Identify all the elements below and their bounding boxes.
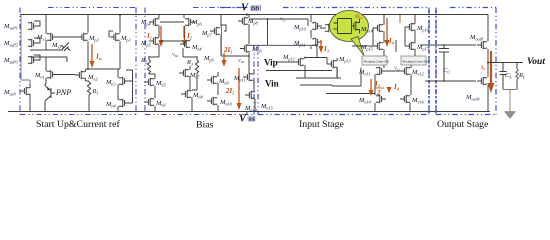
transistor Mn9 bbox=[207, 72, 230, 95]
transistor Mp2 bbox=[78, 15, 99, 69]
transistor Mn2 bbox=[75, 69, 98, 82]
transistor Mn11b bbox=[358, 67, 386, 95]
svg-text:Input Stage: Input Stage bbox=[299, 119, 345, 130]
junction dots bbox=[87, 14, 445, 82]
svg-text:PNP: PNP bbox=[55, 88, 71, 97]
output current arrow bbox=[480, 51, 495, 93]
current arrow I1 bbox=[146, 26, 164, 47]
current arrow I4 bbox=[387, 80, 399, 93]
gate tie wires bias bbox=[160, 22, 184, 41]
transistor Mp8 bbox=[238, 15, 259, 73]
transistor Mp3 bbox=[86, 15, 131, 69]
capacitor CC bbox=[439, 45, 450, 81]
transistor MsuN bbox=[3, 84, 30, 111]
transistor MsuP2 bbox=[3, 38, 40, 48]
ground arrow bbox=[503, 90, 517, 119]
svg-text:Bias: Bias bbox=[196, 120, 214, 131]
transistor Mn14 bbox=[358, 95, 386, 111]
resistor R1 bbox=[86, 81, 99, 112]
transistor Mp13 bbox=[327, 56, 351, 78]
wire Mp15 to classAB box bbox=[384, 49, 415, 68]
stage box Output Stage dashed border bbox=[436, 8, 496, 115]
floating class-AB box 1 bbox=[362, 56, 390, 65]
transistor Mn7 bbox=[179, 66, 201, 90]
transistor Mp14 bbox=[360, 15, 384, 46]
label VSS bbox=[239, 114, 256, 125]
capacitor CL bbox=[500, 63, 513, 90]
transistor Mn4b bbox=[180, 40, 202, 60]
transistor Mn8 bbox=[181, 76, 204, 111]
svg-text:DD: DD bbox=[250, 7, 260, 13]
junction dot Vout bbox=[487, 62, 489, 64]
transistor Mn11a bbox=[233, 69, 254, 90]
transistor MsuP1 bbox=[3, 21, 40, 31]
transistor MoutN bbox=[465, 64, 488, 111]
heavy dashed divider input/output bbox=[429, 10, 436, 113]
label VDD bbox=[241, 3, 261, 14]
svg-text:SS: SS bbox=[249, 118, 255, 124]
transistor Mn6 bbox=[144, 98, 167, 111]
green callout balloon bbox=[330, 11, 369, 56]
transistor Mp16 bbox=[405, 15, 430, 46]
svg-text:Floating Class-AB: Floating Class-AB bbox=[364, 60, 390, 64]
resistor R3 bbox=[186, 56, 199, 76]
current arrow I3 up bbox=[319, 40, 329, 54]
transistor Mn10 bbox=[207, 97, 233, 111]
wire between Mp15 and Mp16 columns bbox=[395, 40, 397, 52]
wire gate mirror top bbox=[249, 19, 326, 28]
transistor Mn13 bbox=[244, 91, 257, 113]
gate wire Mp3 diode loop bbox=[109, 31, 113, 37]
wire Vin bbox=[266, 70, 332, 72]
resistor RL bbox=[516, 63, 526, 90]
orange current path wire bbox=[221, 27, 223, 55]
transistor Mp7 bbox=[201, 15, 226, 56]
transistor Mp17 bbox=[405, 42, 430, 52]
gate wire Ms1 to Mp2 bbox=[57, 36, 78, 38]
svg-text:V: V bbox=[241, 3, 249, 14]
transistor Mn3 bbox=[105, 69, 129, 100]
transistor Mp4 bbox=[140, 15, 159, 60]
resistor R2 bbox=[140, 56, 151, 74]
transistor Mp9 under balloon bbox=[325, 24, 335, 33]
current arrow I2 bbox=[182, 26, 192, 47]
wire between Mn11 Mn12 bbox=[382, 70, 404, 72]
junction dot VDD bbox=[246, 13, 248, 15]
wire gate MoutP bbox=[420, 44, 476, 46]
BJT PNP bbox=[45, 84, 71, 112]
stage box Bias dashed border bbox=[145, 8, 254, 115]
transistor Mp11 bbox=[293, 38, 322, 49]
transistor Mn16 bbox=[400, 95, 425, 111]
transistor Mn12 bbox=[400, 67, 424, 95]
orange stub bbox=[399, 15, 401, 23]
wire loop under Mp13 bbox=[326, 68, 375, 94]
wire gate MoutN bbox=[425, 80, 476, 82]
transistor Mp15 bbox=[352, 42, 383, 52]
transistor Mp9i bbox=[240, 19, 317, 54]
current fraction I3/2 bbox=[369, 79, 385, 97]
transistor MsuP3 bbox=[3, 55, 40, 65]
startup chain wire bbox=[21, 15, 30, 85]
gate wire Mn1 Mn2 bbox=[54, 74, 76, 76]
transistor Mn5 bbox=[144, 74, 166, 98]
VSS tick bbox=[246, 112, 248, 115]
current arrow I5 bbox=[385, 18, 394, 47]
svg-text:Start Up&Current ref: Start Up&Current ref bbox=[36, 119, 121, 130]
VSS power rail bbox=[8, 111, 490, 113]
transistor Ms1 bbox=[36, 15, 57, 50]
wire Mp7 drain node bbox=[221, 55, 250, 57]
current label 2I1 bbox=[222, 46, 233, 67]
VDD power rail bbox=[20, 14, 488, 16]
transistor Mp6 bbox=[184, 15, 203, 38]
transistor Mn4 bbox=[105, 70, 133, 112]
floating class-AB box 2 bbox=[401, 56, 429, 65]
svg-text:Vip: Vip bbox=[264, 58, 278, 68]
transistor Ms3 rotated bbox=[51, 42, 70, 51]
svg-text:Floating Class-AB: Floating Class-AB bbox=[403, 60, 429, 64]
transistor Mn1 bbox=[34, 57, 57, 84]
current label 2I2 bbox=[225, 68, 242, 110]
transistor MoutP bbox=[469, 15, 488, 65]
svg-text:Output Stage: Output Stage bbox=[437, 119, 489, 130]
current arrow Iss bbox=[90, 44, 103, 68]
svg-text:Mpb: Mpb bbox=[354, 15, 363, 20]
svg-text:Vin: Vin bbox=[265, 79, 279, 89]
stage box Start Up dashed border bbox=[20, 8, 136, 115]
transistor Mp10 bbox=[293, 15, 322, 38]
transistor Mp5 bbox=[140, 37, 159, 48]
svg-text:Vout: Vout bbox=[527, 57, 545, 67]
wire Vout bbox=[488, 62, 523, 64]
svg-text:V: V bbox=[239, 114, 247, 125]
transistor Mp12 bbox=[277, 45, 341, 85]
wire node at Ms1 drain bbox=[30, 50, 67, 62]
stage box Input Stage dashed border bbox=[220, 8, 429, 115]
